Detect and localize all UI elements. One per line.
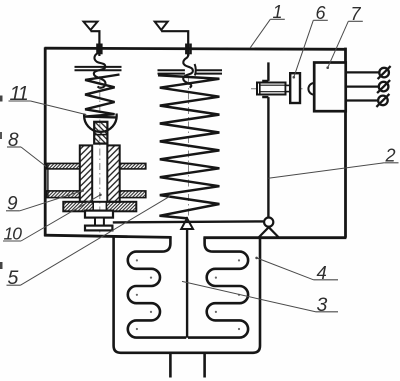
- right flange top bar: [120, 163, 146, 169]
- enclosure box 1 bottom left segment: [44, 235, 171, 237]
- wire 3: [346, 99, 378, 101]
- leader 5: [21, 196, 171, 285]
- leader 11: [31, 101, 87, 115]
- leader 7: [328, 21, 349, 67]
- terminal 1: [378, 66, 391, 79]
- enclosure box 1 top line: [45, 48, 347, 49]
- main spring seat plate: [158, 70, 223, 73]
- main spring hook: [183, 54, 193, 88]
- svg-text:10: 10: [4, 224, 23, 244]
- svg-text:7: 7: [351, 4, 362, 24]
- svg-text:5: 5: [8, 267, 19, 289]
- right adjuster link line: [161, 31, 188, 56]
- terminal 3: [376, 94, 389, 107]
- bellows outlet stem right: [203, 353, 206, 378]
- main spring centerline: [188, 78, 190, 216]
- flapper rod 2 upper: [262, 62, 268, 81]
- leader 10: [21, 195, 100, 241]
- svg-text:8: 8: [8, 130, 19, 151]
- left spring hook: [94, 53, 106, 88]
- compass center dots: [136, 259, 240, 330]
- main spring hook keeper tick: [195, 64, 196, 76]
- main spring 5: [158, 75, 219, 218]
- svg-text:6: 6: [316, 3, 327, 23]
- leader 4: [257, 258, 314, 280]
- terminal 2: [377, 80, 390, 93]
- cylinder body right column: [107, 145, 119, 201]
- bellows housing 4: [114, 237, 260, 353]
- contact screw 6 centerline: [251, 88, 303, 90]
- stem foot disc: [85, 226, 112, 231]
- pivot support triangle: [259, 227, 279, 237]
- leader 9: [20, 191, 83, 211]
- wire 1: [346, 71, 380, 73]
- contact screw 6 body: [257, 83, 286, 95]
- cylinder body left column 8/9: [80, 145, 92, 201]
- leader 6: [294, 20, 314, 77]
- bellows right meander: [188, 238, 248, 338]
- left gland bushing: [96, 44, 98, 55]
- right adjuster support triangle: [155, 22, 168, 30]
- bracket inner wall edge: [47, 163, 49, 197]
- contact plate 6: [290, 73, 300, 103]
- leader 2: [268, 163, 384, 178]
- left adjuster link line: [91, 31, 100, 56]
- right gland bushing: [185, 44, 187, 55]
- svg-text:1: 1: [273, 2, 283, 22]
- wire 2: [346, 85, 379, 87]
- knife edge triangle: [181, 218, 193, 229]
- flapper rod 2 lower: [262, 97, 268, 217]
- bracket 8 top bar: [46, 163, 79, 169]
- leader 1: [250, 19, 270, 48]
- svg-text:11: 11: [10, 83, 28, 105]
- right flange bottom bar: [120, 191, 146, 198]
- base plate 10: [63, 202, 136, 212]
- left spring seat plate: [75, 67, 122, 70]
- svg-text:3: 3: [317, 294, 328, 316]
- enclosure box 1 right wall: [344, 48, 347, 238]
- relay unit 7 button bump: [308, 83, 314, 95]
- spring seat cup 11: [84, 114, 117, 132]
- relay unit 7 box: [314, 63, 346, 112]
- left adjuster support triangle: [84, 22, 98, 30]
- stem collar: [85, 211, 113, 218]
- stem neck: [95, 218, 104, 226]
- valve stem top (hatched): [94, 122, 107, 144]
- spring 11 centerline: [99, 76, 101, 233]
- bellows left meander: [128, 237, 186, 338]
- bellows outlet stem left: [169, 353, 172, 378]
- leader 8: [21, 147, 46, 167]
- pivot circle: [264, 218, 273, 227]
- lever: [113, 221, 264, 222]
- bellows rod 3: [186, 229, 188, 338]
- contact screw neck: [286, 85, 291, 91]
- enclosure box 1 left wall: [44, 47, 47, 236]
- bracket 8 bottom bar: [46, 191, 79, 198]
- spring (left): [85, 75, 120, 118]
- enclosure box 1 bottom right segment: [203, 236, 346, 239]
- svg-text:4: 4: [317, 262, 327, 283]
- scan specks: [0, 96, 3, 102]
- svg-text:9: 9: [7, 193, 18, 214]
- svg-text:2: 2: [385, 145, 396, 165]
- leader 3: [182, 281, 316, 311]
